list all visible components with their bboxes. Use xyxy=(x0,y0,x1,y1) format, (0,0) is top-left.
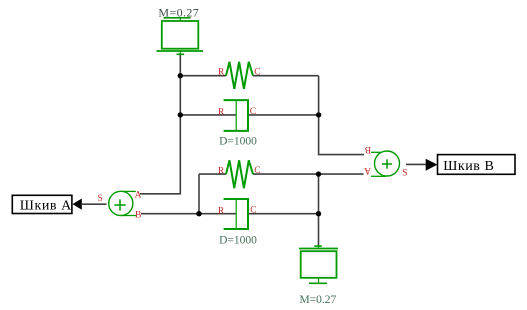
svg-text:M=0.27: M=0.27 xyxy=(299,294,336,306)
svg-text:C: C xyxy=(250,107,256,117)
svg-text:S: S xyxy=(98,194,103,204)
svg-text:M=0.27: M=0.27 xyxy=(158,5,199,19)
svg-text:A: A xyxy=(135,191,142,201)
svg-text:Шкив B: Шкив B xyxy=(443,159,494,174)
svg-text:R: R xyxy=(218,108,225,118)
svg-text:B: B xyxy=(135,211,141,221)
svg-text:D=1000: D=1000 xyxy=(219,135,257,147)
svg-text:A: A xyxy=(364,165,371,175)
svg-text:C: C xyxy=(254,67,260,77)
svg-text:C: C xyxy=(250,206,256,216)
svg-text:R: R xyxy=(218,67,225,77)
svg-text:R: R xyxy=(218,167,225,177)
svg-text:Шкив А: Шкив А xyxy=(20,198,72,213)
svg-text:S: S xyxy=(402,169,407,179)
svg-text:C: C xyxy=(254,166,260,176)
svg-text:B: B xyxy=(365,144,371,154)
svg-text:D=1000: D=1000 xyxy=(219,234,257,246)
svg-text:R: R xyxy=(218,206,225,216)
